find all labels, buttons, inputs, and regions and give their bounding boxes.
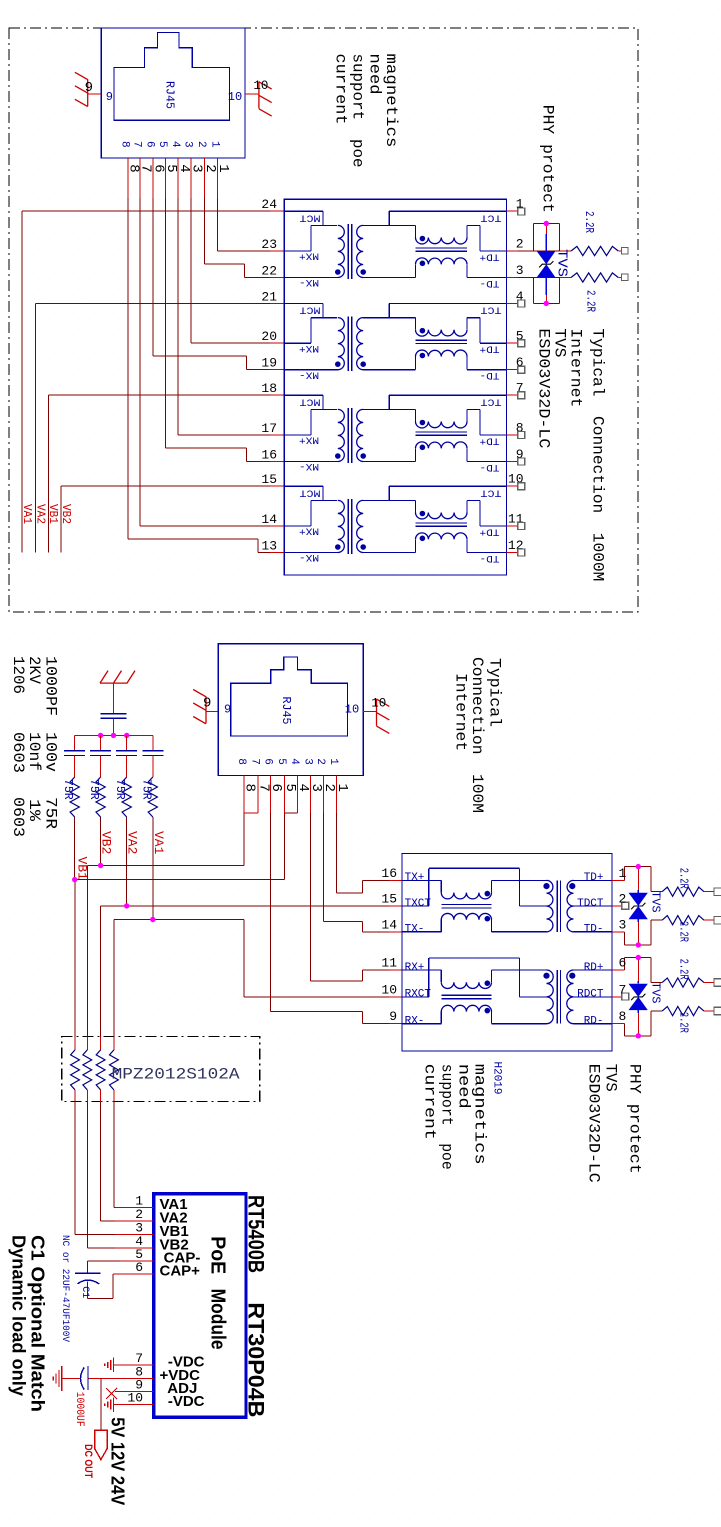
- module pin 2 VA2: [115, 1220, 154, 1222]
- svg-text:TCT: TCT: [481, 304, 502, 316]
- svg-text:2: 2: [195, 141, 207, 148]
- svg-text:100v: 100v: [41, 732, 59, 772]
- terminal square pin 8: [518, 432, 525, 439]
- TVS diode (TD pair): [637, 867, 639, 890]
- junction node TVS bottom: [544, 301, 549, 306]
- svg-text:MPZ2012S102A: MPZ2012S102A: [112, 1066, 240, 1084]
- terminal square pin 4: [518, 300, 525, 307]
- svg-text:TD+: TD+: [480, 434, 500, 446]
- wire row 21: [35, 302, 270, 304]
- svg-text:MX-: MX-: [299, 368, 319, 380]
- svg-text:16: 16: [381, 866, 397, 881]
- wire net VA1 to module pin 1: [113, 1102, 115, 1208]
- wire RJ45-2 pin8 (spare pair): [243, 813, 245, 865]
- svg-text:0603: 0603: [9, 732, 27, 773]
- wire row 20: [191, 342, 270, 344]
- svg-text:TD-: TD-: [584, 924, 604, 936]
- svg-text:RJ45: RJ45: [163, 81, 177, 109]
- svg-text:-VDC: -VDC: [160, 1393, 205, 1410]
- svg-text:RJ45: RJ45: [279, 697, 293, 725]
- wire net VB1 row: [75, 879, 285, 881]
- terminal square pin 11: [518, 523, 525, 530]
- svg-text:2: 2: [516, 237, 524, 252]
- terminal square R2: [621, 274, 628, 281]
- svg-text:9: 9: [85, 80, 93, 96]
- wire row 24: [22, 210, 270, 212]
- wire VA2 branch: [126, 817, 128, 906]
- resistor 2.2R (RD-): [651, 1010, 662, 1012]
- transformer T2 TX channel: [402, 879, 441, 881]
- junction node TVS TD top: [636, 864, 641, 869]
- svg-text:TD-: TD-: [480, 552, 500, 564]
- svg-text:RT30P04B: RT30P04B: [244, 1302, 269, 1417]
- PoE module U1 RT5400B/RT30P04B: [154, 1194, 246, 1418]
- svg-text:8: 8: [235, 758, 247, 765]
- junction node TVS RD bottom: [636, 1033, 641, 1038]
- wire VB1 branch: [74, 817, 76, 880]
- svg-text:2.2R: 2.2R: [677, 959, 690, 980]
- junction node TVS top: [544, 221, 549, 226]
- svg-text:0603: 0603: [9, 797, 27, 837]
- capacitor 10nf branch VA1: [152, 735, 154, 750]
- svg-text:Typical Connection 1000M: Typical Connection 1000M: [589, 328, 607, 581]
- svg-text:1206: 1206: [9, 656, 27, 694]
- ferrite bead L3: [100, 1037, 102, 1050]
- wire RJ45-2 pin1 to TX+: [336, 813, 338, 893]
- svg-text:4: 4: [288, 758, 300, 765]
- resistor R1 2.2R: [571, 246, 618, 255]
- wire T1 right pin 12 stub: [506, 552, 517, 554]
- wire CAP- loop: [121, 1260, 154, 1262]
- connector DC OUT plug: [95, 1430, 108, 1459]
- wire VA1 branch: [152, 817, 154, 920]
- wire row 15: [61, 485, 270, 487]
- svg-text:9: 9: [106, 90, 113, 104]
- terminal square TD+ resistor: [714, 888, 721, 896]
- svg-text:VA1: VA1: [151, 831, 166, 855]
- TVS diode (RD pair): [637, 958, 639, 981]
- svg-text:TCT: TCT: [481, 212, 502, 224]
- svg-text:ESD03V32D-LC: ESD03V32D-LC: [585, 1064, 603, 1183]
- RJ45 connector J2: [218, 644, 363, 776]
- terminal square TD- resistor: [714, 916, 721, 924]
- magnetics transformer block T2 H2019 (100M): [402, 854, 612, 1052]
- svg-text:3: 3: [516, 263, 524, 278]
- svg-text:RX-: RX-: [405, 1016, 425, 1028]
- module pin 10 -VDC: [115, 1404, 154, 1406]
- resistor 75R branch VA1: [148, 777, 157, 817]
- svg-text:MCT: MCT: [300, 396, 321, 408]
- pin stub RJ45-2: [283, 776, 285, 814]
- wire RJ45-2 pin5 (spare pair) down to VB1 row: [283, 813, 285, 880]
- module pin 4 VB2: [115, 1247, 154, 1249]
- wire T1 right pin 4 stub: [506, 302, 517, 304]
- svg-text:13: 13: [261, 539, 277, 554]
- pin stub RJ45-2: [297, 776, 299, 814]
- terminal square RD+ resistor: [714, 979, 721, 987]
- svg-text:1000UF: 1000UF: [73, 1392, 85, 1427]
- wire T1 right pin 8 stub: [506, 434, 517, 436]
- resistor 2.2R (TD+): [651, 891, 662, 893]
- wire RJ45-1 pin5 to row 16: [164, 198, 166, 448]
- svg-text:TD-: TD-: [480, 277, 500, 289]
- module pin 8 +VDC: [115, 1378, 154, 1380]
- svg-text:5: 5: [156, 141, 168, 148]
- svg-text:RX+: RX+: [405, 962, 425, 974]
- svg-text:7: 7: [131, 141, 143, 148]
- pin stub RJ45-2: [322, 776, 324, 814]
- wire RJ45-1 pin1 to row 23: [217, 198, 219, 251]
- svg-text:6: 6: [619, 956, 627, 971]
- ground at RJ45-2 pin 10: [377, 699, 390, 734]
- svg-text:17: 17: [261, 421, 277, 436]
- terminal square pin 7: [622, 993, 629, 1000]
- terminal square pin 7: [518, 392, 525, 399]
- svg-text:RDCT: RDCT: [577, 989, 604, 1001]
- svg-text:TXCT: TXCT: [405, 898, 432, 910]
- terminal square RD- resistor: [714, 1007, 721, 1015]
- svg-text:TX-: TX-: [405, 924, 425, 936]
- wire net VB2 bus: [60, 486, 62, 552]
- svg-text:C1 Optional Match: C1 Optional Match: [28, 1235, 48, 1412]
- svg-text:MCT: MCT: [300, 212, 321, 224]
- wire VB2 branch: [100, 817, 102, 866]
- ground at RJ45-2 pin 9: [193, 690, 206, 724]
- svg-text:current: current: [421, 1064, 439, 1140]
- svg-text:2: 2: [314, 758, 326, 765]
- pin stub RJ45-1: [177, 158, 179, 198]
- capacitor 10nf branch VB2: [100, 735, 102, 750]
- wire RJ45-1 pin9 to ground: [88, 93, 102, 95]
- module pin 1 VA1: [115, 1207, 154, 1209]
- svg-text:7: 7: [619, 982, 627, 997]
- svg-text:TCT: TCT: [481, 487, 502, 499]
- svg-text:11: 11: [381, 956, 397, 971]
- terminal square R1: [621, 247, 628, 254]
- junction node VB1: [72, 877, 77, 882]
- svg-text:8: 8: [619, 1009, 627, 1024]
- svg-text:6: 6: [135, 1260, 143, 1275]
- terminal square pin 1: [518, 208, 525, 215]
- svg-text:14: 14: [381, 917, 397, 932]
- capacitor C3 1000UF: [87, 1366, 89, 1390]
- wire RJ45-2 pin2 to TX-: [322, 813, 324, 921]
- wire RJ45-1 pin10 to ground: [245, 93, 259, 95]
- junction node bus-VA2: [124, 733, 129, 738]
- wire T1 right pin 2 stub: [506, 250, 517, 252]
- wire row 19: [247, 369, 271, 371]
- wire RJ45-2 pin6 to RX-: [270, 813, 272, 1012]
- svg-text:6: 6: [144, 141, 156, 148]
- svg-text:14: 14: [261, 512, 277, 527]
- wire DC OUT branch: [100, 1379, 102, 1431]
- svg-text:magnetics: magnetics: [382, 54, 400, 148]
- transformer T1 group 4 windings: [284, 485, 323, 487]
- wire net VB1 to module pin 3: [74, 1102, 76, 1235]
- svg-text:TCT: TCT: [481, 396, 502, 408]
- pin stub RJ45-2: [270, 776, 272, 814]
- transformer T1 group 3 windings: [284, 394, 323, 396]
- capacitor C1 (optional): [75, 1272, 101, 1274]
- svg-text:22: 22: [261, 264, 277, 279]
- svg-text:DC OUT: DC OUT: [82, 1444, 94, 1478]
- pin stub RJ45-1: [139, 158, 141, 198]
- resistor 75R branch VB2: [96, 777, 105, 817]
- svg-text:8: 8: [119, 141, 131, 148]
- svg-text:24: 24: [261, 197, 277, 212]
- module pin 7 -VDC: [115, 1364, 154, 1366]
- RJ45 connector J1: [101, 28, 245, 158]
- svg-text:PoE: PoE: [207, 1236, 229, 1274]
- ferrite bead L4: [113, 1037, 115, 1050]
- svg-text:5V 12V 24V: 5V 12V 24V: [108, 1417, 128, 1505]
- svg-text:current: current: [332, 54, 350, 125]
- svg-text:15: 15: [261, 472, 277, 487]
- svg-text:TVS: TVS: [649, 982, 663, 1004]
- ground above C2 1000PF: [100, 671, 135, 684]
- power ground at pin 10: [105, 1398, 114, 1412]
- terminal square pin 12: [518, 549, 525, 556]
- capacitor 10nf branch VB1: [74, 735, 76, 750]
- svg-text:2.2R: 2.2R: [677, 921, 690, 942]
- wire RJ45-1 pin6 to row 19: [152, 198, 154, 356]
- wire pin3 row to TVS/resistor: [518, 277, 560, 279]
- wire net VA2 bus: [34, 303, 36, 552]
- wire T1 right pin 9 stub: [506, 461, 517, 463]
- dash-dot frame Typical Connection 1000M: [9, 28, 638, 612]
- terminal square pin 2: [622, 902, 629, 909]
- wire net VA1 row (RXCT): [114, 919, 244, 921]
- wire T1 right pin 1 stub: [506, 210, 517, 212]
- junction node TVS RD top: [636, 955, 641, 960]
- svg-text:2.2R: 2.2R: [677, 868, 690, 889]
- pin stub RJ45-2: [336, 776, 338, 814]
- wire row 13: [258, 552, 270, 554]
- ground at RJ45-1 pin 9: [75, 72, 88, 106]
- svg-text:2.2R: 2.2R: [677, 1012, 690, 1033]
- svg-text:MCT: MCT: [300, 487, 321, 499]
- power ground at pin 7: [105, 1358, 114, 1372]
- pin stub RJ45-1: [164, 158, 166, 198]
- svg-text:TD+: TD+: [584, 872, 604, 884]
- power ground after C3: [53, 1366, 62, 1391]
- svg-text:MX-: MX-: [299, 276, 319, 288]
- wire row 16: [247, 461, 271, 463]
- svg-text:TDCT: TDCT: [577, 898, 604, 910]
- wire net VB2 to module pin 4: [86, 1102, 88, 1248]
- wire row 14: [140, 525, 270, 527]
- svg-text:20: 20: [261, 329, 277, 344]
- svg-text:VB1: VB1: [46, 504, 59, 524]
- svg-text:TD+: TD+: [480, 525, 500, 537]
- svg-text:RT5400B: RT5400B: [244, 1195, 269, 1273]
- svg-text:MX-: MX-: [299, 551, 319, 563]
- svg-text:3: 3: [301, 758, 313, 765]
- wire T1 right pin 6 stub: [506, 369, 517, 371]
- svg-text:TX+: TX+: [405, 872, 425, 884]
- terminal square pin 6: [518, 366, 525, 373]
- svg-text:C1: C1: [79, 1286, 90, 1298]
- svg-text:3: 3: [182, 141, 194, 148]
- svg-text:TD-: TD-: [480, 461, 500, 473]
- svg-text:1000PF: 1000PF: [41, 656, 59, 716]
- module pin 9 ADJ: [115, 1391, 154, 1393]
- svg-text:MCT: MCT: [300, 304, 321, 316]
- svg-text:VB2: VB2: [99, 831, 114, 854]
- module pin 6 CAP+: [115, 1273, 154, 1275]
- svg-text:23: 23: [261, 237, 277, 252]
- wire T1 right pin 5 stub: [506, 342, 517, 344]
- wire TVS bottom bridge: [533, 302, 559, 304]
- svg-text:15: 15: [381, 892, 397, 907]
- wire RJ45-1 pin7 to row 14: [139, 198, 141, 526]
- resistor 2.2R (TD-): [651, 919, 662, 921]
- wire RJ45-1 pin3 to row 20: [190, 198, 192, 343]
- wire RJ45-2 pin4 jog to pin5: [284, 812, 297, 814]
- capacitor C2 1000PF/2KV: [113, 683, 115, 714]
- svg-text:1: 1: [619, 866, 627, 881]
- wire net VA2 row (TXCT): [101, 905, 389, 907]
- svg-text:TD+: TD+: [480, 343, 500, 355]
- svg-text:TD+: TD+: [480, 250, 500, 262]
- svg-text:RXCT: RXCT: [405, 989, 432, 1001]
- svg-text:10: 10: [381, 982, 397, 997]
- wire T1 right pin 11 stub: [506, 525, 517, 527]
- wire T2 pin 1 (TD+): [612, 879, 624, 881]
- svg-text:MX+: MX+: [299, 250, 319, 262]
- wire TVS top bridge: [533, 223, 559, 225]
- pin stub RJ45-1: [152, 158, 154, 198]
- wire net VB2 row: [87, 865, 244, 867]
- svg-text:75R: 75R: [113, 779, 126, 800]
- wire net VA2 to module pin 2: [100, 1102, 102, 1222]
- svg-text:1: 1: [327, 758, 339, 765]
- svg-text:4: 4: [169, 141, 181, 148]
- module pin 5 CAP-: [115, 1260, 154, 1262]
- svg-text:18: 18: [261, 381, 277, 396]
- svg-text:Typical: Typical: [486, 658, 504, 727]
- transformer T2 RX channel: [402, 969, 441, 971]
- resistor R2 2.2R: [571, 273, 618, 282]
- module pin 3 VB1: [115, 1233, 154, 1235]
- svg-text:RD+: RD+: [584, 962, 604, 974]
- svg-text:support poe: support poe: [349, 54, 367, 168]
- svg-text:75R: 75R: [139, 779, 152, 800]
- junction node VA1: [150, 917, 155, 922]
- wire -VDC pin7: [114, 1364, 154, 1366]
- svg-text:10: 10: [253, 79, 268, 93]
- wire T2 pin 7 (RDCT): [612, 996, 622, 998]
- svg-text:75R: 75R: [87, 779, 100, 800]
- ground at RJ45-1 pin 10: [259, 82, 272, 117]
- wire RJ45-2 pin3 to RX+: [310, 813, 312, 981]
- pin stub RJ45-1: [127, 158, 129, 198]
- wire T2 pin 6 (RD+): [612, 969, 624, 971]
- magnetics transformer block T1 (1000M): [284, 199, 506, 575]
- svg-text:Module: Module: [207, 1289, 229, 1350]
- resistor 75R branch VA2: [122, 777, 131, 817]
- wire RJ45-1 pin8 to row 13: [127, 198, 129, 539]
- svg-text:1: 1: [208, 141, 220, 148]
- transformer T1 group 2 windings: [284, 302, 323, 304]
- svg-text:TVS: TVS: [602, 1064, 620, 1092]
- svg-text:H2019: H2019: [491, 1062, 503, 1095]
- resistor 75R branch VB1: [70, 777, 79, 817]
- pin stub RJ45-2: [257, 776, 259, 814]
- junction node bus-VB2: [98, 733, 103, 738]
- svg-text:MX+: MX+: [299, 434, 319, 446]
- svg-text:9: 9: [224, 703, 231, 717]
- svg-text:PHY protect: PHY protect: [539, 105, 557, 213]
- transformer T1 group 1 windings: [284, 210, 323, 212]
- svg-text:10: 10: [345, 703, 359, 717]
- svg-text:PHY protect: PHY protect: [626, 1064, 644, 1174]
- resistor 2.2R (RD+): [651, 982, 662, 984]
- svg-text:10: 10: [228, 90, 242, 104]
- pin stub RJ45-1: [203, 158, 205, 198]
- wire T2 pin 2 (TDCT): [612, 905, 622, 907]
- svg-text:support poe: support poe: [438, 1064, 456, 1170]
- wire CAP+ loop: [88, 1298, 114, 1300]
- pin stub RJ45-1: [217, 158, 219, 198]
- junction node TVS TD bottom: [636, 942, 641, 947]
- svg-text:75R: 75R: [41, 797, 59, 829]
- junction node VA2: [124, 903, 129, 908]
- wire RJ45-2 pin7 jog to pin8: [244, 812, 258, 814]
- svg-text:2.2R: 2.2R: [584, 290, 597, 312]
- junction node bus-cap: [111, 733, 116, 738]
- no-connect X at ADJ pin 9: [106, 1388, 117, 1399]
- wire T2 pin 3 (TD-): [612, 931, 624, 933]
- svg-text:MX+: MX+: [299, 525, 319, 537]
- svg-text:2: 2: [619, 892, 627, 907]
- pin stub RJ45-2: [243, 776, 245, 814]
- wire RJ45-2 pin10 to ground: [363, 711, 376, 713]
- svg-text:VB2: VB2: [59, 504, 72, 524]
- svg-text:16: 16: [261, 448, 277, 463]
- wire row 23: [218, 250, 271, 252]
- svg-text:Dynamic load only: Dynamic load only: [8, 1235, 28, 1396]
- terminal square pin 10: [518, 483, 525, 490]
- svg-text:2.2R: 2.2R: [582, 211, 595, 233]
- wire row 18: [48, 394, 270, 396]
- ferrite bead L2: [86, 1037, 88, 1050]
- wire RJ45-1 pin4 to row 17: [177, 198, 179, 435]
- svg-text:need: need: [455, 1064, 473, 1109]
- wire RJ45-2 pin9 to ground: [206, 711, 218, 713]
- svg-text:VA2: VA2: [125, 831, 140, 854]
- wire net VA1 bus: [21, 211, 23, 552]
- svg-text:ESD03V32D-LC: ESD03V32D-LC: [535, 328, 553, 448]
- ferrite bead L1: [74, 1037, 76, 1050]
- wire net VB1 bus: [47, 395, 49, 552]
- svg-text:VA1: VA1: [20, 504, 33, 524]
- pin stub RJ45-1: [190, 158, 192, 198]
- svg-text:19: 19: [261, 356, 277, 371]
- svg-text:TVS: TVS: [554, 249, 570, 277]
- svg-text:RD-: RD-: [584, 1016, 604, 1028]
- wire +VDC pin8: [88, 1378, 154, 1380]
- svg-text:6: 6: [261, 758, 273, 765]
- svg-text:CAP+: CAP+: [160, 1263, 201, 1280]
- svg-text:3: 3: [619, 917, 627, 932]
- svg-text:10: 10: [371, 696, 386, 710]
- svg-text:75R: 75R: [61, 779, 74, 800]
- wire row 17: [178, 434, 270, 436]
- wire T2 pin 8 (RD-): [612, 1023, 624, 1025]
- svg-text:MX-: MX-: [299, 460, 319, 472]
- svg-text:need: need: [365, 54, 383, 95]
